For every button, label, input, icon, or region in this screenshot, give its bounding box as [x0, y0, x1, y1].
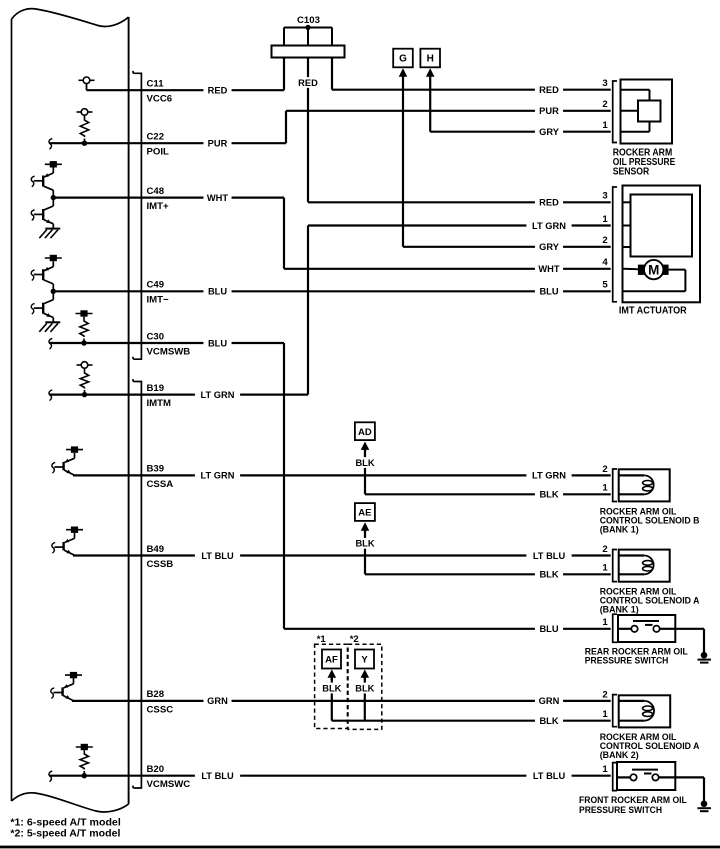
wire color label BLU at C49	[203, 286, 231, 297]
rear rocker arm oil pressure switch bracket	[613, 614, 617, 642]
junction dot at C22 resistor / wire	[82, 141, 87, 146]
rocker arm oil control solenoid A bank1 bracket	[613, 550, 617, 582]
PCM connector bracket (B-group B19-B20)	[133, 379, 141, 788]
wire color label BLU (component side)	[535, 623, 563, 634]
rocker arm oil control solenoid B bank1 box and coil	[619, 469, 670, 501]
wire color label RED on C103 center leg	[294, 77, 322, 88]
wire color label RED at C11	[203, 85, 231, 96]
wire B20 VCMSWC LT BLU to front pressure switch	[49, 771, 611, 782]
front rocker arm oil pressure switch bracket	[613, 763, 617, 791]
rocker arm oil control solenoid A bank1 box and coil	[619, 550, 670, 582]
svg-text:B20: B20	[147, 764, 165, 775]
svg-text:BLU: BLU	[208, 287, 227, 297]
rocker arm oil pressure sensor bracket	[613, 81, 617, 143]
svg-text:VCMSWC: VCMSWC	[147, 779, 191, 790]
wire color label LT BLU at B20	[195, 770, 240, 781]
wire color label BLK (component side)	[535, 489, 563, 500]
svg-text:C48: C48	[147, 186, 165, 197]
pin label B49 / CSSB	[147, 544, 174, 570]
pin label C49 / IMT−	[147, 280, 170, 306]
wire C103 center leg RED down to IMT actuator pin 3	[308, 28, 611, 203]
wire color label BLK below AF	[319, 683, 345, 694]
svg-text:B19: B19	[147, 383, 165, 394]
svg-text:1: 1	[602, 617, 608, 628]
wire color label BLK below Y	[352, 683, 378, 694]
wire rear switch to ground	[675, 628, 704, 630]
svg-text:BLK: BLK	[539, 716, 558, 726]
svg-text:(BANK 1): (BANK 1)	[600, 605, 639, 616]
wire color label WHT at C48	[203, 192, 231, 203]
connector H box	[420, 49, 440, 68]
arrow into AF	[328, 669, 337, 680]
wire color label BLU at C30	[203, 338, 231, 349]
IMT actuator box	[623, 186, 701, 303]
rocker arm oil control solenoid B bank1 bracket	[613, 469, 617, 502]
junction dot at B19 resistor / wire	[82, 392, 87, 397]
svg-text:WHT: WHT	[538, 264, 559, 274]
arrow into AD	[361, 442, 370, 453]
svg-text:*2: *2	[350, 634, 359, 645]
wire color label GRN at B28	[203, 696, 231, 707]
svg-text:GRY: GRY	[539, 127, 560, 137]
svg-text:1: 1	[602, 563, 608, 574]
svg-text:GRY: GRY	[539, 242, 560, 252]
svg-text:C30: C30	[147, 331, 165, 342]
wire C103 right leg vertical	[331, 28, 333, 90]
B39 internal driver transistor	[52, 446, 83, 475]
svg-text:3: 3	[602, 78, 607, 89]
C30 internal pull-up: power square and resistor	[76, 310, 93, 343]
wire BLK from connectors AF / Y to solenoid A bank2 pin 1	[332, 678, 611, 721]
svg-text:PRESSURE SWITCH: PRESSURE SWITCH	[579, 805, 662, 816]
svg-text:RED: RED	[539, 85, 559, 95]
svg-text:RED: RED	[539, 198, 559, 208]
ground at rear switch	[698, 629, 712, 663]
B49 internal driver transistor	[52, 527, 83, 556]
junction dot at C103	[305, 25, 310, 30]
svg-text:PUR: PUR	[208, 139, 228, 149]
rocker arm oil pressure sensor box	[621, 80, 673, 144]
wire color label LT GRN (component side)	[526, 220, 571, 231]
svg-text:BLK: BLK	[322, 683, 341, 693]
IMT actuator bracket	[613, 187, 617, 302]
junction dot at B20 resistor / wire	[82, 773, 87, 778]
svg-text:IMT−: IMT−	[147, 295, 170, 306]
wire color label BLK (component side)	[535, 569, 563, 580]
wire B28 CSSC GRN to solenoid A bank2 pin 2	[72, 700, 611, 702]
svg-text:C103: C103	[297, 15, 320, 26]
label ROCKER ARM OIL CONTROL SOLENOID A (BANK 2)	[600, 732, 700, 761]
svg-text:B39: B39	[147, 464, 165, 475]
svg-text:LT BLU: LT BLU	[201, 551, 234, 561]
svg-text:AF: AF	[325, 655, 338, 666]
wire color label LT BLU at B49	[195, 550, 240, 561]
svg-text:1: 1	[602, 764, 608, 775]
C49 internal driver transistor pair Q-IMT-	[31, 255, 62, 332]
svg-text:M: M	[648, 263, 659, 278]
connector G box	[393, 49, 413, 68]
label ROCKER ARM OIL CONTROL SOLENOID A (BANK 1)	[600, 586, 700, 615]
svg-text:2: 2	[602, 544, 607, 555]
wire color label LT GRN at B39	[195, 470, 240, 481]
pin label C22 / POIL	[147, 132, 170, 158]
rocker arm oil control solenoid A bank2 bracket	[613, 695, 617, 727]
svg-text:GRN: GRN	[207, 696, 228, 706]
PCM connector bracket (C-group C11-C30)	[133, 71, 141, 359]
svg-text:(BANK 1): (BANK 1)	[600, 525, 639, 536]
wire C103 jumper top	[284, 27, 332, 29]
label ROCKER ARM OIL PRESSURE SENSOR	[613, 147, 676, 177]
svg-text:AD: AD	[358, 427, 372, 438]
B28 internal driver transistor	[51, 672, 82, 701]
svg-text:BLK: BLK	[355, 458, 374, 468]
wire color label LT BLU (component side)	[526, 550, 571, 561]
arrow into AE	[361, 522, 370, 533]
wire B19 IMTM LT GRN to actuator pin 1	[49, 226, 611, 401]
wire front switch to ground	[675, 776, 704, 778]
page bottom border	[0, 846, 720, 849]
svg-text:C22: C22	[147, 132, 165, 143]
wire color label LT GRN at B19	[195, 389, 240, 400]
svg-text:VCC6: VCC6	[147, 94, 173, 105]
wire color label GRN (component side)	[535, 696, 563, 707]
svg-text:LT GRN: LT GRN	[201, 390, 235, 400]
wire C11 VCC6 RED to connector C103 left leg	[87, 89, 285, 91]
connector AD box	[355, 422, 375, 440]
svg-text:RED: RED	[208, 86, 228, 96]
svg-text:Y: Y	[361, 655, 368, 666]
IMT actuator pin5 internal wire	[623, 270, 686, 292]
wire C22 POIL PUR	[49, 111, 611, 149]
svg-text:2: 2	[602, 464, 607, 475]
svg-text:WHT: WHT	[207, 193, 228, 203]
svg-text:GRN: GRN	[539, 696, 560, 706]
wire color label GRY (component side)	[535, 241, 563, 252]
rocker arm oil control solenoid A bank2 box and coil	[619, 695, 671, 727]
wire color label PUR at C22	[203, 138, 231, 149]
svg-text:(BANK 2): (BANK 2)	[600, 750, 639, 761]
pin label C11 / VCC6	[147, 79, 173, 105]
arrow into G	[399, 68, 408, 76]
svg-text:LT GRN: LT GRN	[201, 471, 235, 481]
svg-text:RED: RED	[298, 78, 318, 88]
ground at front switch	[698, 777, 712, 811]
pin label B28 / CSSC	[147, 689, 174, 715]
wire color label GRY (component side)	[535, 126, 563, 137]
svg-text:BLK: BLK	[539, 490, 558, 500]
svg-text:1: 1	[602, 214, 608, 225]
wire GRY from connector H to sensor pin 1	[430, 75, 611, 131]
svg-text:CSSB: CSSB	[147, 559, 174, 570]
svg-text:5: 5	[602, 280, 608, 291]
wire BLK from connector AE to solenoid A bank1 pin 1	[365, 530, 611, 574]
svg-text:G: G	[399, 54, 407, 65]
svg-text:POIL: POIL	[147, 147, 170, 158]
wire color label LT GRN (component side)	[526, 470, 571, 481]
wire B39 CSSA LT GRN to solenoid B bank1 pin 2	[73, 474, 611, 476]
wire BLK from connector AD to solenoid B bank1 pin 1	[365, 449, 611, 494]
wire color label RED (component side)	[535, 84, 563, 95]
C22 internal pull-up: circle terminal and resistor	[77, 109, 93, 144]
svg-text:H: H	[427, 54, 434, 65]
dashed option box *1 around AF	[315, 644, 348, 728]
connector AE box	[355, 503, 375, 521]
rear rocker arm oil pressure switch box	[618, 615, 675, 642]
pin label B39 / CSSA	[147, 464, 174, 490]
svg-text:PUR: PUR	[539, 106, 559, 116]
svg-text:2: 2	[602, 689, 607, 700]
svg-text:LT GRN: LT GRN	[532, 471, 566, 481]
wire B49 CSSB LT BLU to solenoid A bank1 pin 2	[73, 554, 611, 556]
svg-text:VCMSWB: VCMSWB	[147, 346, 191, 357]
svg-text:IMT ACTUATOR: IMT ACTUATOR	[619, 305, 687, 316]
C48 internal driver transistor pair Q-IMT+	[31, 161, 62, 238]
arrow into H	[426, 68, 435, 76]
svg-text:BLK: BLK	[355, 539, 374, 549]
label ROCKER ARM OIL CONTROL SOLENOID B (BANK 1)	[600, 506, 700, 535]
svg-text:LT BLU: LT BLU	[533, 771, 566, 781]
B20 internal pull-up: power square and resistor	[76, 744, 93, 776]
svg-text:LT GRN: LT GRN	[532, 221, 566, 231]
B19 internal pull-up: circle terminal and resistor	[77, 362, 93, 395]
wire color label WHT (component side)	[535, 263, 563, 274]
C11 internal 5V reference tap (circle terminal)	[79, 77, 95, 90]
pin label C30 / VCMSWB	[147, 331, 191, 357]
pin label B20 / VCMSWC	[147, 764, 191, 790]
svg-text:BLK: BLK	[539, 570, 558, 580]
label FRONT ROCKER ARM OIL PRESSURE SWITCH	[579, 795, 687, 816]
svg-text:PRESSURE SWITCH: PRESSURE SWITCH	[585, 656, 669, 667]
svg-text:C49: C49	[147, 280, 165, 291]
front rocker arm oil pressure switch box	[617, 762, 675, 790]
svg-text:*1: *1	[317, 634, 327, 645]
svg-text:BLU: BLU	[208, 338, 227, 348]
wire color label RED (component side)	[535, 197, 563, 208]
wire C48 IMT+ WHT to actuator pin 4	[53, 198, 611, 269]
svg-text:BLU: BLU	[539, 287, 558, 297]
svg-text:IMT+: IMT+	[147, 201, 170, 212]
svg-text:CSSA: CSSA	[147, 479, 174, 490]
connector C103 housing bar	[272, 46, 345, 58]
svg-text:BLU: BLU	[539, 624, 558, 634]
connector Y box	[355, 650, 374, 669]
wire GRY from connector G to actuator pin 2	[403, 75, 611, 247]
svg-text:*2: 5-speed A/T model: *2: 5-speed A/T model	[10, 828, 120, 839]
arrow into Y	[361, 669, 370, 680]
svg-text:*1: 6-speed A/T model: *1: 6-speed A/T model	[10, 817, 121, 828]
svg-text:BLK: BLK	[355, 683, 374, 693]
connector AF box	[322, 650, 341, 669]
wire color label BLK below AD	[351, 457, 379, 468]
ECM/PCM block outline (torn-edge box)	[12, 9, 129, 812]
svg-text:1: 1	[602, 709, 608, 720]
svg-text:2: 2	[602, 99, 607, 110]
wire C49 IMT- BLU to actuator pin 5	[53, 290, 611, 292]
wire RED from C103 to sensor pin 3	[332, 89, 611, 91]
wire C30 VCMSWB BLU to rear pressure switch	[49, 338, 611, 628]
svg-text:LT BLU: LT BLU	[201, 771, 234, 781]
pin label C48 / IMT+	[147, 186, 170, 212]
svg-text:4: 4	[602, 257, 608, 268]
wire color label PUR (component side)	[535, 105, 563, 116]
dashed option box *2 around Y	[348, 644, 382, 729]
svg-text:SENSOR: SENSOR	[613, 167, 650, 178]
svg-text:B49: B49	[147, 544, 165, 555]
IMT actuator motor M	[638, 260, 669, 279]
wire color label BLK (component side)	[535, 715, 563, 726]
junction dot at C30 resistor / wire	[81, 340, 86, 345]
svg-text:CSSC: CSSC	[147, 704, 174, 715]
svg-text:LT BLU: LT BLU	[533, 551, 566, 561]
wire color label BLK below AE	[351, 538, 379, 549]
svg-text:IMTM: IMTM	[147, 398, 172, 409]
label REAR ROCKER ARM OIL PRESSURE SWITCH	[585, 647, 688, 667]
pin label B19 / IMTM	[147, 383, 172, 409]
svg-text:2: 2	[602, 235, 607, 246]
svg-text:1: 1	[602, 483, 608, 494]
svg-text:B28: B28	[147, 689, 165, 700]
svg-text:AE: AE	[358, 508, 371, 519]
wire C103 left leg vertical	[283, 28, 285, 91]
wire color label BLU (component side)	[535, 286, 563, 297]
svg-text:1: 1	[602, 120, 608, 131]
wire color label LT BLU (component side)	[526, 770, 571, 781]
svg-text:C11: C11	[147, 79, 165, 90]
svg-text:3: 3	[602, 191, 607, 202]
